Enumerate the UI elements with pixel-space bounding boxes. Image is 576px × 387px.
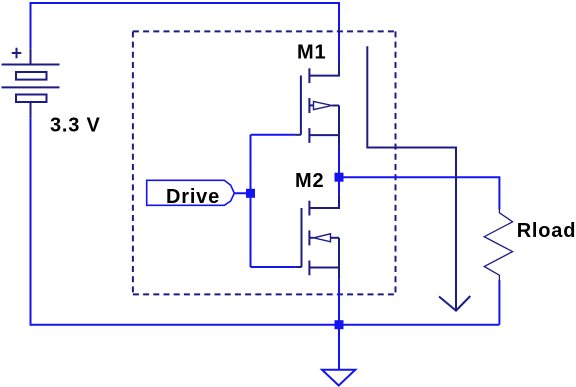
resistor Rload zigzag xyxy=(484,209,512,282)
dashed subcircuit box left edge xyxy=(132,31,134,294)
M2 source channel bar xyxy=(308,261,310,276)
battery B1 cell box 1 xyxy=(16,72,47,80)
M2 gate bar xyxy=(301,208,303,267)
M2 gate pin stub xyxy=(296,266,302,268)
wire: M2 source down to ground xyxy=(338,279,340,370)
transistor M1 (PMOS) xyxy=(301,62,339,147)
dashed subcircuit box bottom edge xyxy=(133,293,396,295)
probe arrowhead xyxy=(439,296,470,311)
battery B1 negative pin stub xyxy=(30,101,32,118)
wire: M1 gate wire xyxy=(251,134,296,136)
M1 bulk lead stub xyxy=(309,104,313,106)
M2 bulk channel bar xyxy=(308,230,310,245)
M1 bulk-source tie and source pin stub xyxy=(338,105,340,146)
svg-text:M2: M2 xyxy=(295,170,324,192)
dashed subcircuit box right edge xyxy=(395,31,397,294)
wire: top rail from battery + to M1 drain xyxy=(31,3,340,62)
battery B1 top plate xyxy=(2,64,60,66)
Drive flag stub wire xyxy=(234,192,250,194)
wire: battery negative down and bottom rail to Rload xyxy=(31,119,500,325)
M2 source lead xyxy=(309,267,339,269)
wire: Rload bottom to rail xyxy=(498,280,500,325)
ground symbol xyxy=(322,370,355,386)
battery B1 positive pin stub xyxy=(30,48,32,64)
M1 bulk arrow (points right, PMOS) xyxy=(314,101,333,109)
wire: M1 source to M2 drain (output node) xyxy=(338,147,340,195)
probe arrow polyline xyxy=(367,46,456,310)
transistor M2 (NMOS) xyxy=(302,194,340,279)
M1 bulk channel bar xyxy=(308,98,310,113)
Drive input flag xyxy=(147,180,235,205)
dashed subcircuit box top edge xyxy=(133,30,396,32)
svg-text:M1: M1 xyxy=(297,41,326,63)
wire: gate bus vertical from Drive node xyxy=(250,135,252,267)
M1 gate pin stub xyxy=(295,134,301,136)
M1 drain lead and pin stub xyxy=(309,62,339,76)
M2 bulk lead stub xyxy=(309,237,313,239)
node: bottom rail junction xyxy=(335,320,344,329)
svg-text:3.3 V: 3.3 V xyxy=(50,115,101,137)
M1 drain channel bar xyxy=(308,68,310,83)
M2 drain channel bar xyxy=(308,201,310,216)
M2 bulk arrow (points left, NMOS) xyxy=(314,234,331,242)
M1 bulk lead xyxy=(332,105,339,107)
battery B1 plus sign xyxy=(12,48,21,58)
wire: output node to Rload top xyxy=(339,177,499,209)
wire: M2 gate wire xyxy=(251,266,296,268)
M1 gate bar xyxy=(300,76,302,135)
node: Drive junction xyxy=(246,189,255,198)
node: output junction xyxy=(335,173,344,182)
M2 bulk-source tie and source pin stub xyxy=(338,238,340,279)
svg-text:Drive: Drive xyxy=(166,186,220,208)
battery B1 cell box 2 xyxy=(16,95,47,103)
M2 drain lead and pin stub xyxy=(309,194,339,208)
battery B1 middle plate xyxy=(2,86,60,88)
M2 bulk lead xyxy=(331,237,340,239)
svg-text:Rload: Rload xyxy=(517,220,576,242)
M1 source channel bar xyxy=(308,128,310,143)
M1 source lead xyxy=(309,134,339,136)
